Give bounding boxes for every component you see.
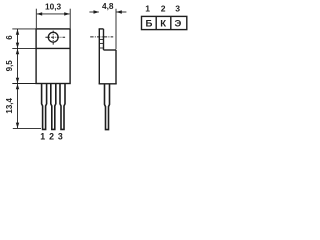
arrows at tab/body junction [16,43,19,49]
front view package outline (tab + body) [36,29,70,84]
arrow up at tab top [16,29,19,35]
arrow down at lead ends [16,123,19,129]
side view tab profile [99,29,104,84]
svg-text:13,4: 13,4 [5,97,14,113]
side view body [99,50,117,84]
hole centerline horizontal (dash-dot) [45,36,65,38]
pinout table divider 1 [155,16,157,29]
pinout table outer box [142,16,187,29]
svg-text:3: 3 [58,131,63,141]
svg-text:Б: Б [145,18,152,29]
extension line tab/body junction [12,47,36,49]
dimension 4,8 arrows outside [89,10,126,13]
svg-text:9,5: 9,5 [5,60,14,72]
svg-text:3: 3 [175,4,180,14]
extension line body bottom [12,83,36,85]
svg-text:1: 1 [145,4,150,14]
svg-text:К: К [160,18,166,29]
svg-text:4,8: 4,8 [102,1,114,11]
side view centerline (dash-dot) [90,36,113,38]
mounting hole [48,32,58,42]
svg-text:10,3: 10,3 [45,1,62,11]
side view tab detail lines [99,39,103,48]
svg-text:Э: Э [174,18,181,29]
dimension 10,3 line with arrows [37,12,70,15]
svg-text:6: 6 [5,35,14,40]
lead 3 [60,84,65,130]
side view lead [105,84,110,130]
svg-text:2: 2 [49,131,54,141]
extension line lead ends [13,127,41,129]
dimension 10,3 extension lines [36,9,70,29]
extension line top of tab [12,28,36,30]
lead 2 [51,84,56,130]
pinout table divider 2 [170,16,172,29]
lead 1 [42,84,47,130]
svg-text:2: 2 [161,4,166,14]
dimension 4,8 extension line right [115,9,117,50]
hole centerline vertical (dash-dot) [52,31,54,45]
left dimension chain line [17,29,19,128]
svg-text:1: 1 [40,131,45,141]
arrows at body bottom [16,78,19,84]
